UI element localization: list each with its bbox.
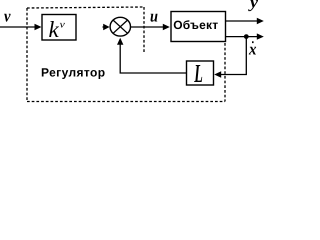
block L (state feedback gain) bbox=[187, 61, 214, 85]
block Plant (Объект) bbox=[171, 12, 226, 42]
regulator dashed boundary: top edge bbox=[27, 7, 144, 8]
regulator dashed boundary: left edge bbox=[26, 8, 28, 102]
svg-text:y: y bbox=[248, 0, 259, 12]
summing junction bbox=[110, 17, 130, 36]
regulator dashed boundary: inner right vertical bbox=[143, 7, 145, 54]
wire: feedback from L to summer bbox=[120, 44, 186, 73]
wire: feedback down from junction and into L bbox=[220, 38, 247, 75]
wire: v input line bbox=[0, 26, 37, 28]
wire: stub into summer bbox=[103, 26, 106, 28]
svg-text:Регулятор: Регулятор bbox=[41, 66, 106, 80]
wire: u line summer to plant bbox=[131, 26, 165, 28]
regulator dashed boundary: bottom edge bbox=[27, 101, 225, 103]
block K (feedforward gain k^v) bbox=[42, 15, 76, 41]
svg-text:Объект: Объект bbox=[173, 18, 218, 32]
svg-text:v: v bbox=[4, 7, 11, 26]
wire: y output bbox=[226, 20, 259, 22]
junction dot on x line bbox=[244, 34, 249, 39]
svg-text:k: k bbox=[49, 17, 60, 42]
svg-text:v: v bbox=[60, 20, 66, 31]
svg-text:L: L bbox=[194, 59, 203, 88]
svg-text:u: u bbox=[150, 7, 158, 26]
wire: x output bbox=[226, 36, 259, 38]
regulator dashed boundary: outer right vertical bbox=[224, 43, 226, 102]
